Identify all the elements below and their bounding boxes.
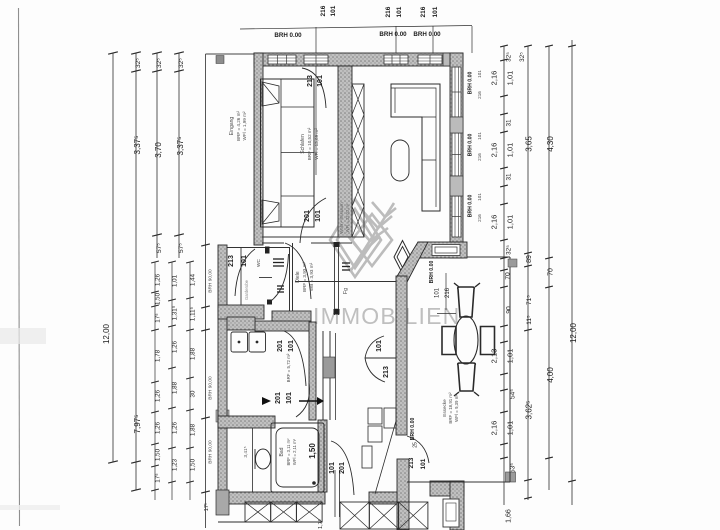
svg-text:Wohn- Essraum: Wohn- Essraum xyxy=(339,202,344,234)
svg-text:32⁵: 32⁵ xyxy=(156,58,163,68)
svg-text:101: 101 xyxy=(376,340,383,352)
svg-text:216: 216 xyxy=(477,91,482,99)
svg-text:201: 201 xyxy=(275,392,282,404)
svg-text:101: 101 xyxy=(329,462,336,474)
svg-text:101: 101 xyxy=(432,6,439,17)
svg-text:2,16: 2,16 xyxy=(490,143,499,158)
svg-text:216: 216 xyxy=(385,6,392,17)
svg-text:90: 90 xyxy=(506,306,513,314)
svg-text:101: 101 xyxy=(435,287,441,298)
svg-text:101: 101 xyxy=(477,132,482,140)
svg-text:3,62⁵: 3,62⁵ xyxy=(525,401,534,420)
svg-text:BRF = 18,91 m²: BRF = 18,91 m² xyxy=(448,392,453,424)
svg-text:BRH 0.00: BRH 0.00 xyxy=(468,71,474,94)
svg-text:Bad: Bad xyxy=(279,447,285,456)
svg-text:BRF = 10,52 m²: BRF = 10,52 m² xyxy=(307,127,312,160)
svg-text:213: 213 xyxy=(383,366,390,378)
svg-text:101: 101 xyxy=(241,255,248,267)
svg-text:1,44: 1,44 xyxy=(190,273,197,286)
svg-text:1,26: 1,26 xyxy=(155,421,162,434)
svg-text:1,01: 1,01 xyxy=(506,71,515,86)
svg-text:57⁵: 57⁵ xyxy=(156,243,163,253)
svg-text:32⁵: 32⁵ xyxy=(506,245,513,255)
svg-text:BRH 0.00: BRH 0.00 xyxy=(410,417,416,440)
svg-text:1,23: 1,23 xyxy=(172,458,179,471)
svg-text:3,41⁵: 3,41⁵ xyxy=(243,446,249,457)
svg-text:17⁵: 17⁵ xyxy=(155,473,162,483)
svg-text:25: 25 xyxy=(413,442,419,448)
svg-text:89: 89 xyxy=(526,255,533,263)
svg-text:11⁵: 11⁵ xyxy=(526,315,533,325)
svg-text:1,01: 1,01 xyxy=(506,215,515,230)
svg-text:Fg: Fg xyxy=(343,288,349,294)
svg-text:4,00: 4,00 xyxy=(546,367,555,383)
svg-text:1,50: 1,50 xyxy=(155,448,162,461)
svg-text:32⁵: 32⁵ xyxy=(506,52,513,62)
svg-text:101: 101 xyxy=(315,210,322,222)
svg-text:101: 101 xyxy=(396,6,403,17)
svg-text:17⁵: 17⁵ xyxy=(203,503,210,511)
svg-text:101: 101 xyxy=(288,340,295,352)
svg-text:101: 101 xyxy=(477,70,482,78)
svg-text:1,78: 1,78 xyxy=(155,349,162,362)
svg-text:2,16: 2,16 xyxy=(490,71,499,86)
svg-text:31: 31 xyxy=(506,173,513,181)
svg-text:216: 216 xyxy=(445,287,451,298)
svg-text:1,66: 1,66 xyxy=(506,509,513,523)
svg-text:Eingang: Eingang xyxy=(229,117,235,136)
svg-text:BRH 0.00: BRH 0.00 xyxy=(468,194,474,217)
svg-text:12,00: 12,00 xyxy=(569,322,578,343)
svg-text:101: 101 xyxy=(317,75,324,87)
svg-text:IMMOBILIEN: IMMOBILIEN xyxy=(313,303,460,329)
svg-text:WB = 3,93 m²: WB = 3,93 m² xyxy=(309,262,314,291)
svg-text:101: 101 xyxy=(420,458,427,469)
svg-text:7,97⁵: 7,97⁵ xyxy=(133,415,142,434)
svg-text:2,16: 2,16 xyxy=(490,421,499,436)
svg-text:216: 216 xyxy=(420,6,427,17)
svg-text:Diele: Diele xyxy=(295,271,301,283)
svg-text:32⁵: 32⁵ xyxy=(519,52,526,62)
svg-text:1,01: 1,01 xyxy=(172,274,179,287)
svg-text:101: 101 xyxy=(477,193,482,201)
svg-text:WFl = 13,69 m²: WFl = 13,69 m² xyxy=(314,128,319,160)
svg-text:32⁵: 32⁵ xyxy=(178,58,185,68)
svg-text:53⁵: 53⁵ xyxy=(510,463,517,473)
svg-text:BRF = 3,11 m²: BRF = 3,11 m² xyxy=(286,438,291,466)
svg-text:57⁵: 57⁵ xyxy=(178,243,185,253)
svg-text:BRH 0.00: BRH 0.00 xyxy=(468,133,474,156)
svg-text:12,00: 12,00 xyxy=(102,323,111,344)
svg-text:1,88: 1,88 xyxy=(190,347,197,360)
svg-text:3,65: 3,65 xyxy=(525,136,534,152)
svg-text:BRH 0.00: BRH 0.00 xyxy=(429,260,435,283)
svg-text:BRH 0.00: BRH 0.00 xyxy=(413,31,441,38)
svg-text:3,37⁵: 3,37⁵ xyxy=(133,136,142,155)
svg-text:201: 201 xyxy=(277,340,284,352)
svg-text:31: 31 xyxy=(506,119,513,127)
svg-text:4,30: 4,30 xyxy=(546,136,555,152)
svg-text:1,50: 1,50 xyxy=(308,443,317,459)
svg-text:70: 70 xyxy=(548,268,555,276)
svg-text:BRF = 5,72 m²: BRF = 5,72 m² xyxy=(286,353,291,382)
svg-text:213: 213 xyxy=(307,75,314,87)
svg-text:1,50: 1,50 xyxy=(190,458,197,471)
svg-text:WFl = 9,39 m²: WFl = 9,39 m² xyxy=(454,394,459,422)
svg-text:71⁵: 71⁵ xyxy=(526,295,533,305)
svg-text:Schlafen: Schlafen xyxy=(300,134,306,154)
svg-text:1,26: 1,26 xyxy=(172,421,179,434)
svg-text:1,01: 1,01 xyxy=(506,143,515,158)
svg-text:BRF = 3,93 m²: BRF = 3,93 m² xyxy=(302,262,307,292)
svg-text:2,16: 2,16 xyxy=(490,215,499,230)
svg-text:Essecke: Essecke xyxy=(442,399,447,417)
svg-text:1,11⁵: 1,11⁵ xyxy=(190,306,197,321)
svg-text:1,88: 1,88 xyxy=(190,423,197,436)
svg-text:30: 30 xyxy=(190,390,197,397)
svg-text:BRF = 4,26 m²: BRF = 4,26 m² xyxy=(236,111,241,141)
svg-text:BRH 0.00: BRH 0.00 xyxy=(274,32,302,39)
svg-text:216: 216 xyxy=(477,214,482,222)
svg-text:WFl = 32,02 m²: WFl = 32,02 m² xyxy=(345,203,350,232)
svg-text:1,31⁵: 1,31⁵ xyxy=(172,305,179,320)
svg-text:101: 101 xyxy=(286,392,293,404)
svg-text:1,50: 1,50 xyxy=(155,292,162,305)
svg-text:WFl = 2,11 m²: WFl = 2,11 m² xyxy=(292,438,297,465)
svg-text:BRH 90,00: BRH 90,00 xyxy=(208,376,214,400)
svg-text:54⁵: 54⁵ xyxy=(510,389,517,399)
svg-text:201: 201 xyxy=(304,210,311,222)
svg-text:216: 216 xyxy=(320,5,327,16)
svg-text:Garderobe: Garderobe xyxy=(244,279,249,300)
svg-text:216: 216 xyxy=(477,153,482,161)
svg-text:32⁵: 32⁵ xyxy=(135,58,142,68)
svg-text:WC: WC xyxy=(256,258,262,267)
svg-text:201: 201 xyxy=(339,462,346,474)
svg-text:3,70: 3,70 xyxy=(154,142,163,158)
svg-text:1,26: 1,26 xyxy=(172,340,179,353)
svg-text:WFl = 1,99 m²: WFl = 1,99 m² xyxy=(242,111,247,140)
svg-text:1,26: 1,26 xyxy=(155,389,162,402)
svg-text:BRH 0.00: BRH 0.00 xyxy=(379,31,407,38)
svg-text:1,88: 1,88 xyxy=(172,381,179,394)
svg-text:BRH 90,00: BRH 90,00 xyxy=(208,440,214,464)
svg-text:3,37⁵: 3,37⁵ xyxy=(176,137,185,156)
svg-text:213: 213 xyxy=(408,457,415,468)
svg-text:101: 101 xyxy=(330,5,337,16)
svg-text:17⁵: 17⁵ xyxy=(155,313,162,323)
svg-text:BRH 90,00: BRH 90,00 xyxy=(208,269,214,293)
svg-text:213: 213 xyxy=(228,255,235,267)
svg-text:1,26: 1,26 xyxy=(155,273,162,286)
